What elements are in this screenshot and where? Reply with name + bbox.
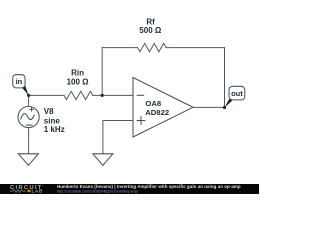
svg-text:out: out xyxy=(231,89,243,98)
wire source to ground xyxy=(28,128,30,154)
ground under source xyxy=(18,154,38,166)
svg-text:Humberto Evans (hevans) | Inve: Humberto Evans (hevans) | Inverting Ampl… xyxy=(57,184,241,189)
wire feedback right vertical xyxy=(224,48,226,108)
footer logo waveform xyxy=(10,190,26,193)
wire feedback top left xyxy=(102,47,137,49)
wire input node down to source xyxy=(28,95,30,106)
ground under op-amp non-inverting input xyxy=(93,154,113,166)
svg-text:in: in xyxy=(16,77,23,86)
svg-text:1 kHz: 1 kHz xyxy=(44,125,65,134)
port in box xyxy=(13,75,25,88)
svg-text:500 Ω: 500 Ω xyxy=(139,26,162,35)
node input junction dot xyxy=(27,94,30,97)
svg-text:http://circuitlab.com/c/6282h4: http://circuitlab.com/c/6282h4qZbC/inver… xyxy=(57,189,138,193)
resistor Rin xyxy=(64,91,93,99)
svg-text:LAB: LAB xyxy=(32,188,44,193)
node output junction dot xyxy=(223,106,226,109)
port out tail xyxy=(225,99,233,108)
wire feedback top right xyxy=(166,47,224,49)
voltage source minus sign xyxy=(26,124,33,126)
op-amp inverting input minus sign xyxy=(137,94,145,96)
resistor Rf xyxy=(138,43,167,51)
port in tail xyxy=(22,85,29,95)
footer logo spark xyxy=(28,190,31,193)
op-amp U: OA8 triangle xyxy=(133,78,193,138)
wire feedback left vertical xyxy=(101,48,103,96)
voltage source sine squiggle xyxy=(21,114,35,120)
node feedback-left junction dot xyxy=(101,94,104,97)
svg-text:V8: V8 xyxy=(44,107,54,116)
svg-text:100 Ω: 100 Ω xyxy=(67,77,90,86)
wire op-amp non-inverting to ground corner xyxy=(103,121,133,154)
svg-text:sine: sine xyxy=(44,116,61,125)
wire op-amp output xyxy=(193,106,225,108)
voltage source plus sign xyxy=(29,107,34,112)
svg-text:AD822: AD822 xyxy=(145,108,169,117)
wire junction to op-amp inverting input xyxy=(102,94,132,96)
svg-text:OA8: OA8 xyxy=(145,99,162,108)
svg-text:Rf: Rf xyxy=(146,17,155,26)
footer bar xyxy=(0,184,259,194)
svg-text:Rin: Rin xyxy=(71,69,84,78)
wire input node to Rin xyxy=(29,94,64,96)
op-amp non-inverting input plus sign xyxy=(137,116,146,125)
voltage source V8 circle xyxy=(18,106,39,127)
port out box xyxy=(229,86,245,100)
wire Rin to junction xyxy=(93,94,102,96)
